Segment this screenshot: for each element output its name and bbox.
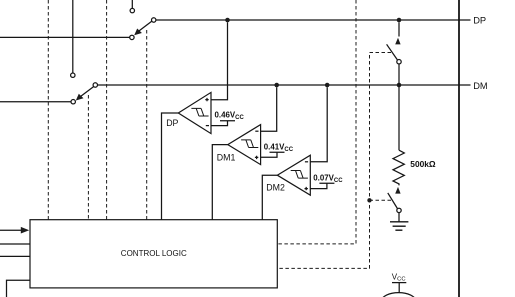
wire dashed control F (SW3/SW4 to control logic) <box>277 53 391 269</box>
node SW2 lower contact <box>71 100 75 104</box>
wire dashed control F branch to SW4 <box>370 199 392 201</box>
wire DM-side left input (to switch lower contact) <box>0 101 71 103</box>
wire SW2 upper contact stub <box>72 0 74 73</box>
node SW2 pivot <box>93 83 97 87</box>
wire DP comparator - input to 0.46Vcc reference <box>211 121 235 126</box>
current source circle (partial) <box>382 293 416 297</box>
wire DM1 comparator + input to 0.41Vcc reference <box>261 152 285 157</box>
wire dashed control D (to SW1) <box>146 30 148 220</box>
svg-text:DM: DM <box>473 81 487 91</box>
node SW1 lower contact <box>130 35 134 39</box>
svg-text:0.46VCC: 0.46VCC <box>215 110 245 120</box>
wire control input 4 (bottom L) <box>7 280 31 297</box>
Vcc supply symbol <box>392 283 406 293</box>
dashed control lines <box>48 0 391 268</box>
wire dashed control C <box>106 0 108 220</box>
wire DP comparator output to control logic <box>162 113 179 220</box>
wire DM net <box>98 84 471 86</box>
svg-text:CONTROL LOGIC: CONTROL LOGIC <box>121 249 187 258</box>
node SW1 upper contact <box>130 8 134 12</box>
svg-text:DM2: DM2 <box>266 182 285 192</box>
switch SW3 arm with arrowhead <box>387 38 401 60</box>
switch SW3 stub from DP net <box>398 22 400 36</box>
node SW1 pivot <box>152 18 156 22</box>
wire DP-side left input (to switch lower contact) <box>0 36 130 38</box>
wire DM2 comparator output to control logic <box>262 175 277 220</box>
svg-text:DP: DP <box>166 118 178 128</box>
wire SW3 pivot down through DM to resistor <box>398 64 400 150</box>
switch SW4 arrowhead <box>395 187 400 194</box>
wire control input 1 with arrow <box>0 227 29 234</box>
wire DM1 comparator output to control logic <box>212 145 228 220</box>
wire control input 2 <box>0 243 30 245</box>
wire SW1 upper contact stub <box>131 0 133 8</box>
node junction DP/switch SW3 <box>397 18 402 23</box>
wire DM1 comparator - input to DM net <box>261 87 277 131</box>
node junction DM/DM1 comparator <box>274 83 279 88</box>
node SW2 upper contact <box>71 73 75 77</box>
comparator DM1 <box>228 125 261 165</box>
node junction DM/switch SW3 <box>397 83 402 88</box>
switch SW1 arm <box>134 21 152 35</box>
wire DM2 comparator + input to 0.07Vcc reference <box>310 183 334 188</box>
IC boundary right <box>458 0 460 297</box>
resistor R1 500k <box>393 150 404 185</box>
comparator DP <box>178 92 211 133</box>
node SW3 pivot <box>397 60 401 64</box>
svg-text:0.07VCC: 0.07VCC <box>313 174 343 184</box>
svg-text:VCC: VCC <box>392 272 406 282</box>
wire dashed control E (top to control logic) <box>277 0 356 244</box>
svg-text:DM1: DM1 <box>217 152 236 162</box>
switch SW2 arm <box>76 87 94 101</box>
svg-text:500kΩ: 500kΩ <box>410 159 436 169</box>
node SW4 pivot <box>397 208 401 212</box>
comparator DM2 <box>277 155 310 195</box>
svg-text:0.41VCC: 0.41VCC <box>264 143 294 153</box>
wire DM2 comparator - input to DM net <box>310 87 327 162</box>
node dashed junction <box>367 198 371 202</box>
control logic box <box>30 220 277 288</box>
wire dashed control A <box>47 0 49 220</box>
wire dashed control B (to SW2) <box>87 95 89 220</box>
node junction DM/DM2 comparator <box>325 83 330 88</box>
node junction DP/comparator <box>225 18 230 23</box>
svg-text:DP: DP <box>473 16 486 26</box>
wire DP net <box>156 19 471 21</box>
ground <box>390 213 408 231</box>
wire control input 3 <box>0 255 30 257</box>
wire DP comparator + input to DP net <box>211 22 228 100</box>
switch SW4 arm <box>388 193 398 209</box>
